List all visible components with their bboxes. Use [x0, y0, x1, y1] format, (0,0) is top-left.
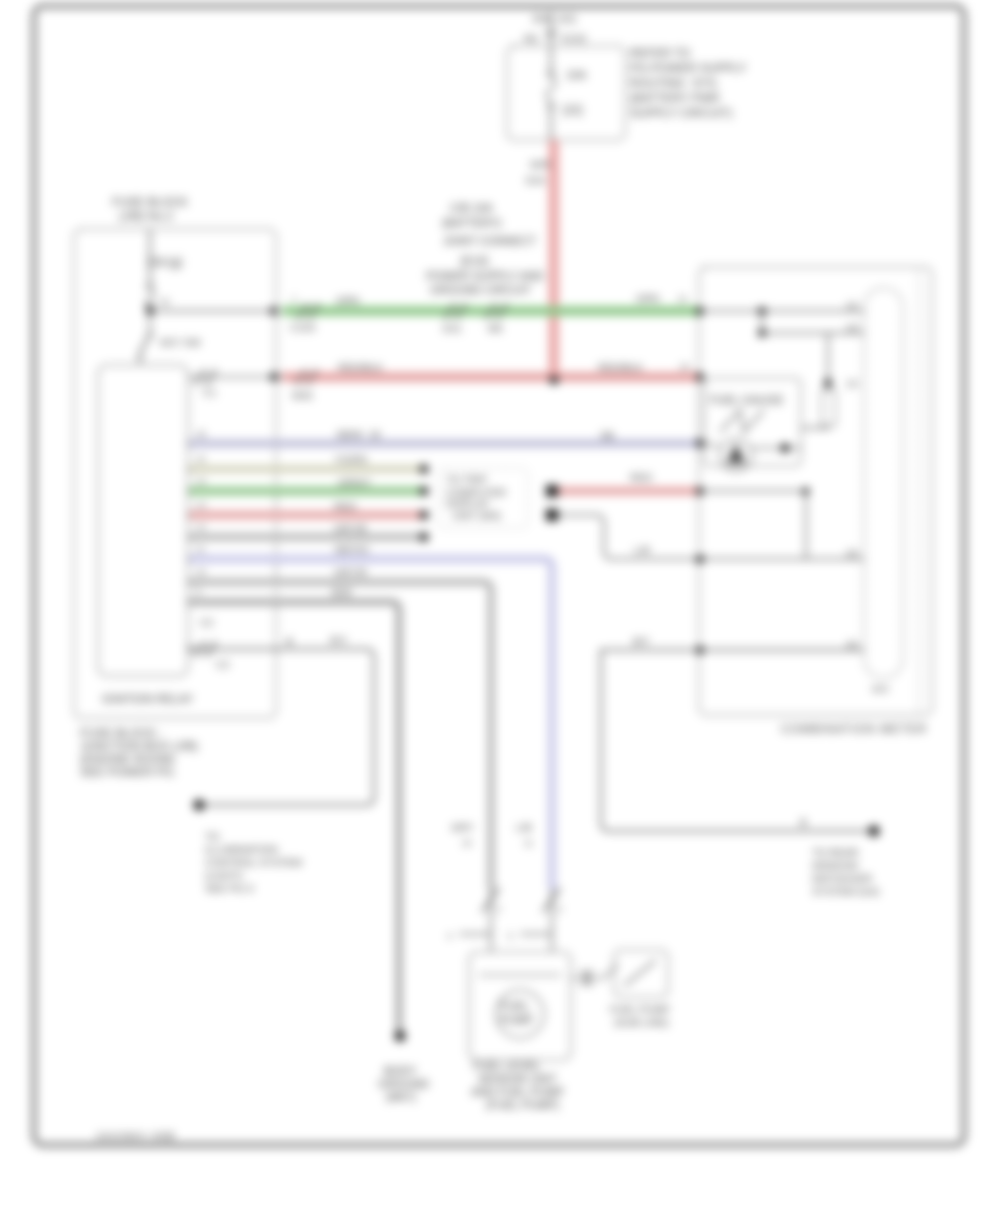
svg-text:[22]: [22] — [563, 105, 582, 117]
svg-text:10A: 10A — [566, 70, 587, 82]
svg-text:FUEL PUMP: FUEL PUMP — [610, 1004, 670, 1016]
wire red internal drop — [700, 488, 810, 560]
svg-text:22: 22 — [160, 297, 170, 307]
note callout dashed — [438, 468, 528, 528]
svg-text:ILLUMINATION: ILLUMINATION — [205, 844, 278, 856]
connector C101 — [524, 32, 587, 45]
svg-text:E43: E43 — [526, 175, 545, 187]
svg-text:11: 11 — [524, 838, 533, 848]
svg-text:RED: RED — [630, 472, 653, 484]
wire row8 gray to ground — [189, 587, 399, 1030]
node splice squares — [546, 485, 558, 521]
svg-text:M24: M24 — [872, 684, 889, 694]
wire meter internal branch — [758, 311, 864, 337]
wire capsule divider — [918, 267, 920, 715]
svg-text:1: 1 — [292, 294, 297, 304]
svg-text:14: 14 — [196, 476, 206, 486]
gauge coil — [720, 439, 752, 471]
relay inner box — [98, 365, 188, 676]
node fuse block label left — [112, 195, 188, 223]
pump connector box — [610, 950, 670, 1029]
wire row1 lavender — [189, 429, 700, 448]
note joint connector block — [426, 203, 544, 297]
svg-text:10: 10 — [196, 567, 206, 577]
node defogger terminal — [812, 826, 880, 899]
combination meter box — [699, 267, 932, 736]
wire row4 red — [189, 500, 429, 520]
svg-text:16: 16 — [196, 429, 206, 439]
svg-text:3: 3 — [557, 904, 562, 914]
svg-text:11: 11 — [196, 544, 205, 554]
wire meter internal green — [700, 300, 864, 315]
svg-text:W/R: W/R — [530, 159, 551, 171]
node junction red — [550, 376, 559, 385]
svg-text:SB: SB — [600, 430, 614, 442]
svg-text:B/W: B/W — [332, 587, 352, 599]
svg-text:TO: TO — [205, 831, 219, 843]
fuse F2 — [146, 257, 182, 310]
svg-text:15: 15 — [196, 454, 206, 464]
svg-text:E41: E41 — [443, 323, 462, 335]
svg-text:22: 22 — [680, 362, 690, 372]
svg-text:GROUND: GROUND — [378, 1079, 429, 1091]
svg-text:C1: C1 — [203, 387, 217, 399]
svg-text:COMBINATION METER: COMBINATION METER — [781, 722, 927, 736]
svg-text:RED/BLK: RED/BLK — [338, 362, 383, 374]
svg-text:E102: E102 — [562, 33, 587, 45]
svg-text:GRY/R: GRY/R — [334, 567, 367, 579]
node junction fuse out — [146, 307, 276, 315]
svg-text:RED: RED — [334, 501, 357, 513]
svg-text:(SUB LINE): (SUB LINE) — [614, 1017, 669, 1029]
note fuel sender label — [471, 1061, 564, 1112]
svg-text:24: 24 — [846, 639, 858, 651]
wire fuse drop — [149, 229, 151, 285]
svg-text:(LIGHT): (LIGHT) — [205, 870, 243, 882]
wire splice path — [558, 515, 864, 560]
svg-text:C2: C2 — [200, 617, 214, 629]
fuel sender box — [469, 952, 571, 1060]
wire pump pigtail — [571, 964, 618, 985]
svg-text:PUMP: PUMP — [500, 1015, 534, 1027]
wire red row mid — [558, 472, 698, 495]
svg-text:TO REAR: TO REAR — [812, 847, 859, 859]
fuse block top box — [507, 46, 625, 140]
svg-text:(BATTERY): (BATTERY) — [442, 218, 502, 230]
svg-text:B: B — [286, 636, 293, 648]
ground G1 — [378, 1031, 429, 1105]
svg-text:CONTROL SYSTEM: CONTROL SYSTEM — [205, 857, 302, 869]
resistor R1 — [801, 333, 858, 428]
svg-text:13: 13 — [846, 322, 858, 334]
svg-text:2: 2 — [496, 904, 501, 914]
node W/R labels — [526, 159, 551, 187]
svg-text:GROUND CIRCUIT: GROUND CIRCUIT — [430, 285, 531, 297]
svg-text:B/Y: B/Y — [633, 636, 650, 648]
wire row3 green — [189, 476, 429, 496]
svg-text:KEY SW: KEY SW — [160, 337, 201, 349]
svg-text:GRN: GRN — [636, 293, 659, 305]
svg-text:30A: 30A — [532, 13, 551, 25]
wire row2 yellow — [189, 454, 429, 474]
svg-text:M5: M5 — [488, 323, 503, 335]
svg-text:FUSE BLOCK: FUSE BLOCK — [112, 195, 188, 209]
connector pump 2 — [508, 888, 562, 952]
svg-text:FUEL LEVEL: FUEL LEVEL — [473, 1061, 542, 1073]
wire red-blk row — [188, 362, 698, 402]
svg-text:B: B — [800, 817, 807, 829]
connector pump 1 — [447, 888, 501, 952]
svg-text:JUNCTION BOX (J/B): JUNCTION BOX (J/B) — [80, 739, 198, 753]
wire row6 lavender bend — [189, 544, 552, 890]
node relay label — [102, 694, 193, 706]
svg-text:M1: M1 — [524, 33, 539, 45]
node relay pins — [187, 441, 192, 652]
svg-text:AND FUEL PUMP: AND FUEL PUMP — [471, 1087, 564, 1099]
svg-text:JOINT CONNECT: JOINT CONNECT — [443, 236, 536, 248]
connector capsule — [864, 288, 903, 694]
svg-text:REFER TO: REFER TO — [630, 46, 690, 60]
svg-text:GRN: GRN — [336, 295, 359, 307]
svg-text:GRN/Y: GRN/Y — [338, 477, 371, 489]
wire inside fuse box — [550, 46, 552, 140]
svg-text:UNIT (M4): UNIT (M4) — [452, 510, 501, 522]
svg-text:SB/W 18: SB/W 18 — [336, 429, 381, 441]
svg-text:DISPLAY: DISPLAY — [446, 498, 490, 510]
wire drop B to pump — [451, 822, 533, 848]
svg-text:SB/VIO: SB/VIO — [334, 544, 369, 556]
wire row5 gray — [189, 522, 429, 542]
node meter pins — [696, 307, 704, 654]
switch S1 — [138, 311, 201, 362]
svg-text:WINDOW: WINDOW — [812, 860, 858, 872]
node illumination terminal — [194, 800, 303, 896]
svg-text:L/R: L/R — [634, 545, 651, 557]
node battery label — [532, 13, 576, 25]
svg-text:DEFOGGER: DEFOGGER — [812, 873, 873, 885]
svg-text:Y/GRN: Y/GRN — [334, 454, 367, 466]
svg-text:5: 5 — [508, 931, 513, 941]
svg-text:FUSE BLOCK -: FUSE BLOCK - — [80, 726, 163, 740]
svg-text:SEE POWER PG.: SEE POWER PG. — [80, 765, 177, 779]
svg-text:POWER SUPPLY AND: POWER SUPPLY AND — [426, 271, 544, 283]
wire gauge out — [700, 444, 801, 453]
note diagram id — [95, 1131, 176, 1143]
wire battery feed top — [550, 12, 552, 47]
wire meter lower pin — [601, 636, 872, 831]
svg-text:15A [g]: 15A [g] — [146, 257, 182, 269]
wire row9 to illumination — [189, 635, 374, 805]
svg-text:(BATTERY PWR: (BATTERY PWR — [630, 91, 720, 105]
svg-text:9: 9 — [196, 587, 201, 597]
svg-text:RED/BLK: RED/BLK — [598, 362, 643, 374]
svg-text:(FUEL PUMP): (FUEL PUMP) — [486, 1100, 559, 1112]
svg-text:SYSTEM (G4): SYSTEM (G4) — [812, 886, 879, 898]
svg-text:R/Y: R/Y — [330, 635, 348, 647]
wire red vertical from fuse box — [549, 140, 559, 380]
svg-text:C103: C103 — [290, 322, 315, 334]
note below fuse block — [80, 726, 198, 779]
svg-text:21: 21 — [678, 294, 688, 304]
svg-text:FUEL: FUEL — [500, 1001, 530, 1013]
svg-text:GRY/B: GRY/B — [334, 523, 366, 535]
svg-text:BODY: BODY — [384, 1066, 417, 1078]
svg-text:[42]: [42] — [558, 13, 576, 25]
svg-text:13: 13 — [196, 500, 206, 510]
svg-text:ROUTING SYS.: ROUTING SYS. — [630, 76, 719, 90]
svg-text:C/B 10A: C/B 10A — [450, 203, 493, 215]
svg-text:14: 14 — [846, 378, 858, 390]
svg-text:C2: C2 — [216, 659, 230, 671]
fuse F1 — [547, 70, 587, 117]
svg-text:(M57): (M57) — [386, 1092, 416, 1104]
svg-text:M33: M33 — [292, 390, 313, 402]
svg-text:10: 10 — [462, 838, 472, 848]
svg-text:FUEL GAUGE: FUEL GAUGE — [710, 395, 784, 407]
svg-text:(J/B) No.2: (J/B) No.2 — [119, 209, 173, 223]
wire row7 gray bend — [189, 567, 491, 890]
svg-text:TO TRIP: TO TRIP — [446, 474, 487, 486]
note fuse box right — [630, 46, 746, 120]
svg-text:PG-POWER SUPPLY: PG-POWER SUPPLY — [630, 61, 746, 75]
svg-text:12: 12 — [846, 300, 858, 312]
svg-text:23: 23 — [846, 548, 858, 560]
svg-text:12: 12 — [196, 522, 206, 532]
svg-text:4: 4 — [447, 931, 452, 941]
fuse block left box — [74, 229, 276, 718]
fuel gauge box U1 — [704, 378, 801, 466]
svg-text:SENSOR UNIT: SENSOR UNIT — [478, 1074, 557, 1086]
svg-text:GRY: GRY — [451, 822, 474, 834]
svg-text:[E10]: [E10] — [461, 256, 488, 268]
wire green row — [270, 293, 698, 335]
svg-text:SEE PG-3: SEE PG-3 — [205, 883, 254, 895]
svg-text:(ENGINE ROOM): (ENGINE ROOM) — [80, 752, 175, 766]
svg-text:L/B: L/B — [516, 822, 532, 834]
svg-text:IGNITION RELAY: IGNITION RELAY — [102, 694, 193, 706]
svg-text:JA03WX-08B: JA03WX-08B — [95, 1131, 176, 1143]
svg-text:SUPPLY CIRCUIT): SUPPLY CIRCUIT) — [630, 106, 732, 120]
